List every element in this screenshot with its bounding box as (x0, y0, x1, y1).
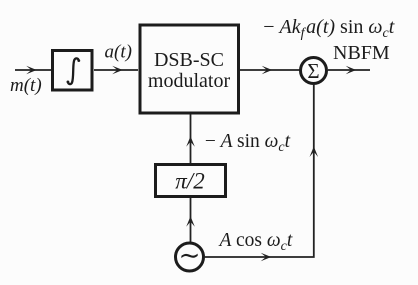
wire: DSB-SC modulator to summer (240, 69, 300, 71)
label -Ak_f a(t) sin w_c t (262, 16, 395, 41)
svg-text:− A sin ωct: − A sin ωct (204, 131, 291, 155)
svg-text:∼: ∼ (179, 241, 201, 270)
summer U-sigma (301, 58, 327, 84)
svg-text:modulator: modulator (148, 70, 231, 92)
arrowhead on oscillator output wire (261, 253, 272, 262)
svg-text:NBFM: NBFM (333, 42, 390, 64)
DSB-SC modulator block (140, 25, 239, 113)
svg-text:m(t): m(t) (10, 75, 42, 96)
arrowhead on modulator output wire (262, 66, 273, 75)
svg-text:Σ: Σ (307, 59, 319, 83)
arrowhead pointing up to summer (310, 147, 319, 158)
arrowhead on input wire (26, 66, 37, 75)
arrowhead on summer output wire (346, 66, 357, 75)
label NBFM (333, 42, 390, 64)
wire: oscillator up to pi/2 block (190, 198, 192, 242)
svg-text:DSB-SC: DSB-SC (154, 49, 224, 71)
wire: oscillator right then up to summer (204, 84, 314, 257)
label a(t) (105, 42, 132, 63)
arrowhead pointing up to pi/2 block (186, 216, 195, 227)
arrowhead pointing up to DSB-SC modulator (186, 136, 195, 147)
arrowhead on a(t) wire (112, 66, 123, 75)
svg-text:π/2: π/2 (175, 169, 204, 194)
pi/2 phase shifter block (156, 165, 226, 197)
label A cos w_c t (218, 230, 293, 254)
wire: pi/2 block up to DSB-SC modulator (190, 114, 192, 163)
oscillator (176, 241, 204, 271)
svg-text:a(t): a(t) (105, 42, 132, 63)
wire: integrator to DSB-SC modulator (94, 69, 138, 71)
label -A sin w_c t (204, 131, 291, 155)
svg-text:− Akf a(t) sin ωct: − Akf a(t) sin ωct (262, 16, 395, 41)
wire: input m(t) to integrator (15, 69, 51, 71)
integrator block (53, 51, 93, 91)
wire: summer output (328, 69, 370, 71)
label m(t) (10, 75, 42, 96)
